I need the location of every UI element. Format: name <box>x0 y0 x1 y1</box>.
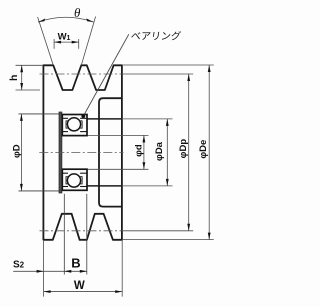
bearing bottom: inner race bottom edge <box>62 172 68 174</box>
phiDe arrow bottom <box>208 233 211 240</box>
pulley body outline <box>43 65 122 240</box>
W1 arrow left <box>54 41 61 44</box>
phi-d extension line top (from bearing inner ring) <box>87 134 149 136</box>
outer diameter extension bottom right <box>122 239 214 241</box>
bearing top: cage right <box>79 121 82 128</box>
theta dimension line left (flank extension) <box>38 17 54 65</box>
W1 arrow right <box>72 41 79 44</box>
theta arc arrow right <box>86 18 93 22</box>
S2 arrow (points right at pulley face) <box>37 270 44 273</box>
svg-text:ベアリング: ベアリング <box>130 30 182 43</box>
phiDe arrow top <box>208 65 211 72</box>
svg-text:θ: θ <box>74 5 81 20</box>
phid arrow top <box>143 135 146 142</box>
bearing bottom: outer box <box>62 169 87 190</box>
svg-text:φD: φD <box>11 144 22 158</box>
shaft spacer bar <box>59 112 62 193</box>
hub bore step line bottom <box>87 185 122 187</box>
bearing callout dot <box>81 114 85 118</box>
phiDp arrow top <box>187 74 190 81</box>
W arrow left <box>44 290 51 293</box>
h extension line bottom <box>16 89 41 91</box>
bearing top: ball <box>67 118 80 131</box>
svg-text:φd: φd <box>133 144 144 157</box>
W arrow right <box>115 290 122 293</box>
B arrow left <box>64 270 71 273</box>
B extension line right (bearing width) <box>86 194 88 275</box>
W1 dimension line <box>54 41 79 43</box>
B arrow right <box>80 270 87 273</box>
phiDa arrow bottom <box>166 179 169 186</box>
bearing top: inner race top edge <box>62 131 68 133</box>
phiD dimension line <box>20 114 22 191</box>
S2 B chained dimension line <box>13 270 87 272</box>
W1 extension stub right <box>78 39 80 49</box>
svg-text:φDe: φDe <box>198 140 209 159</box>
svg-text:B: B <box>71 256 80 271</box>
W1 extension stub left <box>53 39 55 49</box>
svg-text:S2: S2 <box>13 259 25 270</box>
pitch line bottom <box>40 230 122 232</box>
phiDe dimension line <box>208 65 210 240</box>
phiDp arrow bottom <box>187 224 190 231</box>
W extension line right <box>121 241 123 297</box>
pitch line top <box>40 73 122 75</box>
theta arc <box>38 17 94 22</box>
phiDa extension top right <box>122 118 173 120</box>
phid arrow bottom <box>143 162 146 169</box>
bearing bottom: ball <box>67 174 80 187</box>
phiDa arrow top <box>166 119 169 126</box>
pitch line bottom extension right <box>122 230 193 232</box>
bore line top (left, ext + bore edge) <box>19 113 60 115</box>
B extension line left (bearing width) <box>63 194 65 275</box>
phiDa dimension line <box>166 119 168 186</box>
bearing callout leader <box>83 34 129 116</box>
hub bore step line top <box>87 118 122 120</box>
outer diameter extension top right <box>122 64 214 66</box>
phid dimension line <box>143 135 145 169</box>
bearing top: outer box <box>62 115 87 136</box>
bearing bottom: cage left <box>66 177 69 184</box>
phiDa extension bottom right <box>122 185 173 187</box>
bore line bottom (left) <box>19 190 60 192</box>
phiD arrow top <box>20 114 23 121</box>
bearing bottom: outer race inner edge <box>62 186 68 188</box>
bearing top: outer race inner edge <box>62 117 68 119</box>
theta arc arrow left <box>38 19 45 23</box>
svg-text:φDp: φDp <box>178 139 189 159</box>
h arrow bottom <box>20 83 23 90</box>
phiD arrow bottom <box>20 184 23 191</box>
bearing top: cage left <box>66 121 69 128</box>
right face full line <box>121 98 123 206</box>
axis center line <box>39 151 123 153</box>
svg-text:h: h <box>8 75 20 81</box>
W dimension line <box>44 291 123 293</box>
W extension line left <box>43 241 45 297</box>
pitch line top extension right <box>122 73 193 75</box>
svg-text:W: W <box>74 280 85 292</box>
phi-d extension line bottom <box>87 168 149 170</box>
h dimension line <box>21 65 23 90</box>
theta dimension line right (flank extension) <box>81 17 95 66</box>
h extension line top <box>16 64 44 66</box>
svg-text:φDa: φDa <box>154 141 165 161</box>
phiDp dimension line <box>188 74 190 231</box>
h arrow top <box>20 65 23 72</box>
bearing bottom: cage right <box>79 177 82 184</box>
